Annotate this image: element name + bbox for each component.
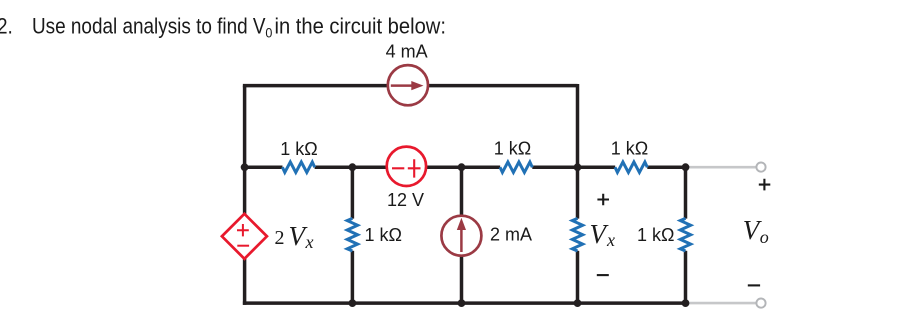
wire: top horizontal — [243, 84, 578, 88]
voltage source V1 12 V — [387, 147, 426, 186]
svg-text:12 V: 12 V — [387, 190, 424, 210]
label - (Vx polarity bottom) — [597, 274, 609, 276]
wire: middle horizontal R3 to node 5 — [647, 165, 685, 169]
svg-text:1 kΩ: 1 kΩ — [637, 225, 674, 245]
wire: node1 down to dependent source top — [243, 167, 247, 214]
svg-text:1 kΩ: 1 kΩ — [494, 139, 531, 159]
dependent source 2Vx (diamond) — [222, 214, 267, 259]
label + (Vx polarity top) — [597, 194, 609, 206]
node dot F (x=352, bottom) — [349, 299, 357, 307]
svg-text:1 kΩ: 1 kΩ — [611, 139, 648, 159]
node dot G (x=461.5, bottom) — [458, 299, 466, 307]
wire: branch x=352 upper — [351, 167, 355, 218]
wire: branch x=686 lower — [684, 251, 688, 303]
current source I2 2 mA — [441, 216, 481, 256]
label + (Vo polarity top) — [759, 179, 771, 191]
node dot I (x=686, bottom) — [682, 299, 690, 307]
node dot B (x=352, mid) — [349, 163, 357, 171]
resistor R3 1 kOhm (right horizontal) — [615, 162, 647, 172]
wire: gray output lead top — [686, 166, 757, 169]
svg-text:2.: 2. — [0, 14, 13, 39]
wire: middle horizontal node1 to R1 — [245, 165, 283, 169]
svg-text:1 kΩ: 1 kΩ — [280, 139, 317, 159]
label - (Vo polarity bottom) — [748, 284, 760, 286]
wire: bottom horizontal — [243, 301, 686, 305]
node dot D (x=577, mid) — [574, 163, 582, 171]
wire: branch x=461.5 (2 mA branch, full) — [460, 167, 464, 303]
wire: branch x=352 lower — [351, 251, 355, 303]
wire: top-right vertical down to node 4 — [576, 84, 580, 167]
wire: branch x=686 upper — [684, 167, 688, 218]
wire: gray output lead bottom — [686, 302, 757, 305]
svg-text:in the circuit below:: in the circuit below: — [274, 14, 445, 39]
wire: left vertical upper (node1 to top-left corner) — [243, 86, 247, 169]
resistor R2 1 kOhm (middle horizontal) — [500, 162, 532, 172]
node dot C (x=461.5, mid) — [458, 163, 466, 171]
resistor R4 1 kOhm (vertical, x=352) — [347, 218, 357, 251]
node dot E (x=686, mid) — [682, 163, 690, 171]
svg-text:Use nodal analysis to find V: Use nodal analysis to find V — [32, 14, 266, 39]
current source I1 4 mA — [388, 65, 428, 105]
wire: branch x=577 upper — [576, 167, 580, 218]
resistor R1 1 kOhm (left horizontal) — [282, 162, 314, 172]
svg-text:0: 0 — [265, 25, 272, 41]
svg-text:4 mA: 4 mA — [386, 42, 428, 62]
svg-text:2 mA: 2 mA — [490, 225, 532, 245]
resistor R5 Vx (vertical, x=577) — [572, 218, 582, 251]
terminal: open circle top — [756, 163, 765, 172]
node dot H (x=577, bottom) — [574, 299, 582, 307]
svg-text:1 kΩ: 1 kΩ — [365, 225, 402, 245]
wire: middle horizontal R1 to R2 (passes under 12V source) — [315, 165, 501, 169]
wire: branch x=577 lower — [576, 251, 580, 303]
title text — [0, 14, 446, 41]
resistor R6 1 kOhm (vertical, x=686) — [680, 218, 690, 251]
wire: dependent source bottom to bottom-left corner — [243, 259, 247, 305]
wire: middle horizontal R2 to R3 — [532, 165, 615, 169]
node dot A (x=244, mid) — [241, 163, 249, 171]
terminal: open circle bottom — [756, 299, 765, 308]
